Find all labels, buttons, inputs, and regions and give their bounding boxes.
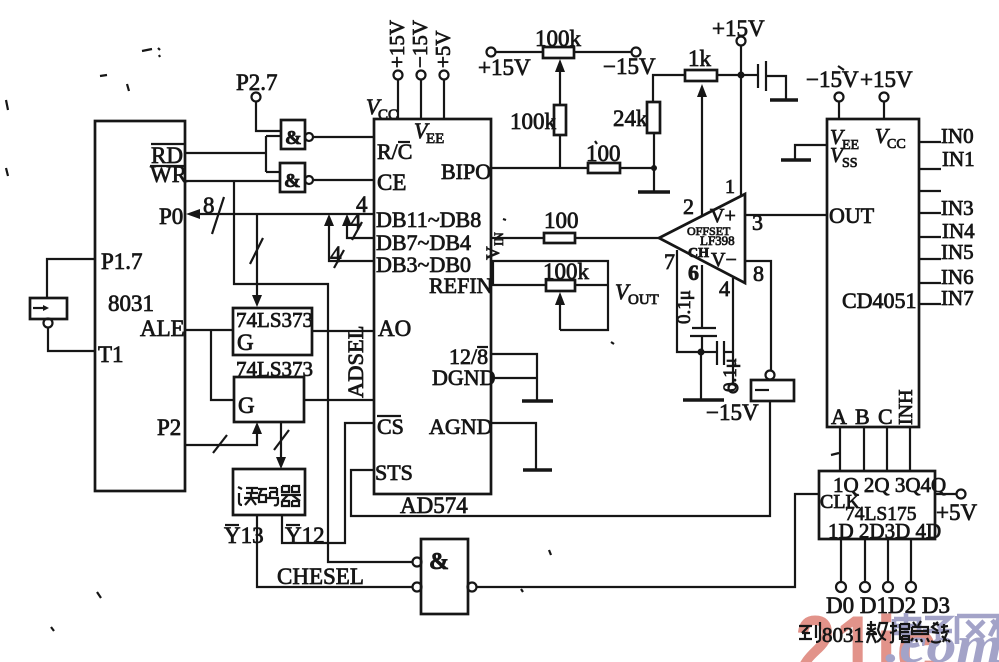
svg-text:P1.7: P1.7 xyxy=(101,249,143,274)
svg-text:INH: INH xyxy=(895,389,917,425)
wire DB7~DB4 nibble bus with up arrow xyxy=(342,214,374,238)
junction at 24k bottom xyxy=(651,165,657,171)
pin number 8 xyxy=(753,261,764,286)
svg-text:+15V: +15V xyxy=(478,55,531,80)
pin label CS (overline) xyxy=(377,414,404,439)
svg-text:1k: 1k xyxy=(688,46,712,71)
pin label R/C (C overline) xyxy=(377,139,412,164)
svg-text:−15V: −15V xyxy=(408,20,432,68)
wire pin 6 to hold capacitor C2 xyxy=(701,265,703,327)
svg-text:C: C xyxy=(878,404,893,429)
pin label A xyxy=(831,404,847,429)
svg-text:P0: P0 xyxy=(159,204,183,229)
wire A to 74LS175 1Q xyxy=(839,427,841,471)
pin label VSS xyxy=(830,143,858,171)
pin label VEE xyxy=(414,118,444,147)
ground at DGND xyxy=(522,399,553,402)
svg-text:T1: T1 xyxy=(98,342,124,367)
svg-text:8031: 8031 xyxy=(108,291,154,316)
bus width label 4 with slash at DB7 xyxy=(350,209,362,240)
pin number 3 xyxy=(752,210,763,235)
resistor R1 100k vertical xyxy=(510,105,566,135)
svg-text:CS: CS xyxy=(377,414,404,439)
pin number 4 xyxy=(719,276,730,301)
IC U1 8031 microcontroller body xyxy=(95,121,185,491)
wire pulse box to T1 xyxy=(48,328,95,351)
wire +15V to pot RP1 xyxy=(496,51,543,53)
svg-text:CC: CC xyxy=(378,107,398,123)
IC value label 8031 xyxy=(108,291,154,316)
wire pin 7 to hold cap node xyxy=(677,250,701,352)
wire RP2 feedback loop xyxy=(493,261,608,330)
power terminal -15V right of pot RP1 xyxy=(603,48,656,80)
net labels D0 D1 D2 D3 xyxy=(826,593,950,618)
svg-text:DGND: DGND xyxy=(432,365,496,390)
pin label INH (rotated) xyxy=(895,389,917,425)
wire U2B output to AD574 CE pin xyxy=(313,179,374,181)
svg-text:IN0: IN0 xyxy=(941,124,974,148)
svg-text:+5V: +5V xyxy=(431,30,455,68)
potentiometer RP1 100k xyxy=(535,26,582,105)
pin label VEE xyxy=(830,125,859,153)
wire 2D to terminal D1 xyxy=(864,539,866,582)
svg-text:100: 100 xyxy=(586,141,621,166)
input stub IN1 xyxy=(919,147,975,171)
power terminal -15V at CD4051 VEE xyxy=(806,67,859,119)
potentiometer RP2 100k xyxy=(543,259,590,330)
wire C to 74LS175 3Q xyxy=(886,427,888,471)
ground below op-amp xyxy=(683,398,724,401)
terminal circle under pulse box xyxy=(44,319,53,328)
pin label B xyxy=(855,404,870,429)
svg-text:0.1μ: 0.1μ xyxy=(674,290,695,324)
resistor R5 100 xyxy=(544,208,579,243)
pin label ALE xyxy=(140,316,185,341)
svg-text:OUT: OUT xyxy=(829,203,875,228)
IC U6 AD574 ADC body xyxy=(374,119,491,518)
wire U10 output to 74LS175 CLK xyxy=(477,494,819,587)
svg-text:ALE: ALE xyxy=(140,316,185,341)
wire P0 data bus with arrow into 8031 xyxy=(186,209,374,219)
pin label BIPO xyxy=(441,159,491,184)
svg-text:3: 3 xyxy=(752,210,763,235)
svg-text:8: 8 xyxy=(753,261,764,286)
svg-text:CD4051: CD4051 xyxy=(842,288,917,313)
pin labels 1D 2D 3D 4D xyxy=(828,519,941,543)
wire STS to sample-hold control xyxy=(351,401,770,516)
input stub IN4 xyxy=(919,219,975,243)
wire latch U4 to decoder with arrow and slash xyxy=(274,422,289,469)
wire WR branch down to bottom AND gate xyxy=(234,181,413,562)
pin label REFIN xyxy=(429,273,493,298)
pin labels 1Q 2Q 3Q 4Q xyxy=(833,473,946,497)
input stub IN7 xyxy=(919,286,974,310)
net label Y13 (overline) xyxy=(224,523,264,548)
wire Y12 from decoder to AD574 CS xyxy=(282,423,374,543)
wire +5V to 74LS175 xyxy=(935,493,956,495)
power terminal +15V at AD574 VCC xyxy=(385,20,409,119)
pin label A0 xyxy=(378,316,411,341)
svg-text:&: & xyxy=(284,170,301,192)
svg-text:+15V: +15V xyxy=(712,16,765,41)
svg-text:−15V: −15V xyxy=(603,54,656,79)
bus width label 4 with slash at DB3 xyxy=(330,242,344,268)
wire P0 drop into latch U3 with arrow and slash xyxy=(250,214,263,307)
pin number 1 xyxy=(725,75,741,198)
svg-text:A: A xyxy=(831,404,847,429)
svg-text:8031: 8031 xyxy=(822,623,864,647)
power terminal +15V above op-amp xyxy=(712,16,765,75)
power terminal +15V left of offset pot xyxy=(478,48,531,81)
svg-text:EE: EE xyxy=(842,138,859,153)
wire BIPO to resistor R2 xyxy=(491,167,588,169)
svg-text:G: G xyxy=(237,330,254,355)
pin label P0 xyxy=(159,204,183,229)
pin label C xyxy=(878,404,893,429)
wire 4D to terminal D3 xyxy=(910,539,912,582)
watermark dianziwang (purple) xyxy=(894,613,999,645)
net label ADSEL (rotated) xyxy=(343,326,368,399)
svg-text:1: 1 xyxy=(725,176,735,198)
pin label OUT xyxy=(829,203,875,228)
junction at hold cap node xyxy=(698,349,705,356)
latch U3 74LS373 xyxy=(233,308,313,355)
ground at C1 xyxy=(770,98,798,101)
svg-text:7: 7 xyxy=(664,249,675,274)
svg-text:24k: 24k xyxy=(613,106,648,131)
svg-text:−15V: −15V xyxy=(706,400,759,425)
svg-text:DB11~DB8: DB11~DB8 xyxy=(376,207,481,232)
svg-text:4: 4 xyxy=(719,276,730,301)
wire R2 to 24k junction xyxy=(620,167,654,169)
pin label VCC xyxy=(875,124,906,152)
capacitor C1 at +15V node xyxy=(741,61,786,99)
svg-text:6: 6 xyxy=(688,260,699,285)
pin number 2 xyxy=(683,194,694,219)
latch U4 74LS373 xyxy=(234,357,313,422)
svg-text:100k: 100k xyxy=(543,259,590,284)
wire junction to ground xyxy=(700,352,702,399)
wire -15V rail to R3 and R4 1k xyxy=(653,75,685,102)
svg-text:100k: 100k xyxy=(510,109,557,134)
NAND gate U2B xyxy=(280,163,313,192)
svg-text:REFIN: REFIN xyxy=(429,273,493,298)
power terminal +5V xyxy=(936,490,977,526)
svg-text:−15V: −15V xyxy=(806,67,859,92)
svg-text:Y12: Y12 xyxy=(285,523,325,548)
wire op-amp output pin 3 to CD4051 OUT xyxy=(745,214,827,216)
svg-text:+15V: +15V xyxy=(385,20,409,68)
net label CHESEL xyxy=(277,564,364,589)
wire latch U4 output ADSEL to AD574 xyxy=(304,399,374,401)
pin label DB7~DB4 xyxy=(376,230,471,255)
wire R4 to +15V junction xyxy=(717,74,741,76)
wire Y13 from decoder to CHESEL line xyxy=(257,515,413,587)
wire pin 8 to sample-hold switch xyxy=(745,261,771,371)
wire junction to ground xyxy=(653,168,655,191)
svg-text:SS: SS xyxy=(842,156,858,171)
svg-text:8: 8 xyxy=(203,193,215,218)
svg-text:AD574: AD574 xyxy=(400,493,468,518)
wire RD to NAND gates xyxy=(185,136,281,172)
wire INH to 74LS175 4Q xyxy=(909,427,911,471)
input stub IN5 xyxy=(919,240,974,264)
pin label P1.7 xyxy=(101,249,143,274)
svg-text:CC: CC xyxy=(887,137,906,152)
wire WR to NAND gate U2B xyxy=(185,180,280,182)
wire latch U3 output to AD574 A0 xyxy=(312,330,374,332)
wire P2 bus to latch U4 with arrow and slash xyxy=(185,422,262,453)
capacitor C3 0.1u decoupling xyxy=(701,341,741,392)
svg-text:CLK: CLK xyxy=(820,491,861,513)
wire U2A output to AD574 R/C pin xyxy=(313,136,374,138)
svg-text:AGND: AGND xyxy=(429,414,493,439)
wire 1D to terminal D0 xyxy=(840,539,842,582)
label to-8031-data-bus (Chinese) xyxy=(799,621,950,647)
svg-text:IN3: IN3 xyxy=(941,196,974,220)
wire VIN through R5 to op-amp output xyxy=(491,237,659,239)
svg-text:V+: V+ xyxy=(710,205,736,227)
wire pot RP1 to -15V terminal xyxy=(574,51,631,53)
wire REFIN to pot RP2 xyxy=(491,284,546,286)
svg-text:+5V: +5V xyxy=(936,500,977,525)
wire P1.7 to pulse box xyxy=(47,259,95,298)
wire DB3~DB0 nibble bus with up arrow xyxy=(324,214,374,261)
svg-text:IN7: IN7 xyxy=(941,286,974,310)
net label Y12 (overline) xyxy=(285,523,325,548)
wire 12/8 and DGND to ground xyxy=(491,354,537,400)
svg-text:100k: 100k xyxy=(535,26,582,51)
svg-text:V: V xyxy=(483,246,504,260)
pin label 12/8 (8 overline) xyxy=(449,344,488,369)
svg-text:&: & xyxy=(285,127,302,149)
pin label P2 xyxy=(157,415,181,440)
svg-text:1D 2D3D 4D: 1D 2D3D 4D xyxy=(828,519,941,543)
pin label CLK xyxy=(820,491,861,513)
resistor R4 1k xyxy=(685,46,717,81)
svg-text:74LS373: 74LS373 xyxy=(236,308,313,332)
resistor R2 100 xyxy=(586,141,621,173)
svg-text:4: 4 xyxy=(356,192,368,217)
power terminal +15V at CD4051 VCC xyxy=(860,67,913,119)
svg-text:ADSEL: ADSEL xyxy=(343,326,368,399)
svg-text:+15V: +15V xyxy=(860,67,913,92)
pin number 7 xyxy=(664,249,675,274)
svg-text:&: & xyxy=(429,549,449,575)
svg-text:AO: AO xyxy=(378,316,411,341)
svg-text:STS: STS xyxy=(375,460,413,485)
svg-text:CE: CE xyxy=(377,170,406,195)
decoder U5 (Chinese: decoder) xyxy=(233,469,305,515)
svg-text:G: G xyxy=(238,393,255,418)
IC U9 74LS175 latch body xyxy=(819,471,935,539)
pin label DB3~DB0 xyxy=(376,252,471,277)
IC U8 CD4051 multiplexer body xyxy=(827,119,919,427)
watermark .com (purple) xyxy=(885,617,999,662)
capacitor C2 0.1u xyxy=(674,290,717,336)
bus width label 4 above DB11 xyxy=(356,192,368,217)
node P2.7 terminal xyxy=(236,70,278,102)
svg-text:V−: V− xyxy=(711,249,737,271)
sample-hold control box S1 xyxy=(751,371,794,402)
net label VOUT xyxy=(615,279,659,308)
pin label CE xyxy=(377,170,406,195)
input stub IN3 xyxy=(919,196,974,220)
svg-text:IN1: IN1 xyxy=(942,147,975,171)
pin label VIN (rotated) xyxy=(483,232,506,260)
pin label VCC xyxy=(366,94,398,123)
watermark 21ic (red) xyxy=(795,599,937,662)
input stub IN6 xyxy=(919,265,974,289)
pin number 6 xyxy=(688,260,699,285)
pulse source B1 box at T1 xyxy=(30,298,67,319)
svg-text:EE: EE xyxy=(426,131,444,147)
resistor R3 24k xyxy=(613,102,660,168)
pin label RD (active low) xyxy=(151,143,184,168)
svg-text:CH: CH xyxy=(688,246,709,261)
pin label AGND xyxy=(429,414,493,439)
power terminal -15V at pin 4 xyxy=(706,384,759,426)
NAND gate U2A xyxy=(281,120,313,149)
junction at +15V node xyxy=(738,72,745,79)
svg-text:IN5: IN5 xyxy=(941,240,974,264)
svg-text:P2.7: P2.7 xyxy=(236,70,278,95)
svg-text:B: B xyxy=(855,404,870,429)
input stub IN0 xyxy=(919,124,974,148)
svg-text:OUT: OUT xyxy=(628,292,659,308)
wire R1 to BIPO line xyxy=(559,135,561,168)
wire pin 4 to -15V terminal xyxy=(732,278,734,383)
ground at VSS xyxy=(781,158,811,161)
pin label T1 xyxy=(98,342,124,367)
svg-text:CHESEL: CHESEL xyxy=(277,564,364,589)
wire ALE to latch gates xyxy=(185,330,234,400)
svg-text:2: 2 xyxy=(683,194,694,219)
wire B to 74LS175 2Q xyxy=(863,427,865,471)
svg-text:P2: P2 xyxy=(157,415,181,440)
pin label WR (active low) xyxy=(150,162,188,187)
AND gate U10 with inverting inputs xyxy=(413,539,477,614)
speck marks scan artifacts xyxy=(6,48,844,631)
power terminal +5V at AD574 xyxy=(431,30,455,119)
pin label STS xyxy=(375,460,413,485)
wire P2.7 to NAND gate U2A xyxy=(256,102,281,131)
svg-text:100: 100 xyxy=(544,208,579,233)
pin label DGND xyxy=(432,365,496,390)
wire AGND to ground xyxy=(491,423,536,469)
input stub IN2 (label faded) xyxy=(919,190,941,192)
pin label DB11~DB8 xyxy=(376,207,481,232)
wire VSS to ground xyxy=(795,145,827,159)
ground at AGND xyxy=(523,468,552,471)
bus width label 8 with slash xyxy=(203,193,224,234)
wire C2 to ground junction xyxy=(701,336,703,352)
power terminal -15V at AD574 VEE xyxy=(408,20,432,119)
svg-text:BIPO: BIPO xyxy=(441,159,491,184)
ground below 24k xyxy=(638,190,670,193)
terminal circles D0 D1 D2 D3 xyxy=(836,582,916,592)
op-amp U7 LF398 sample-hold triangle xyxy=(659,194,745,283)
wire R4 wiper to op-amp pin 2 xyxy=(697,84,707,216)
wire 3D to terminal D2 xyxy=(887,539,889,582)
